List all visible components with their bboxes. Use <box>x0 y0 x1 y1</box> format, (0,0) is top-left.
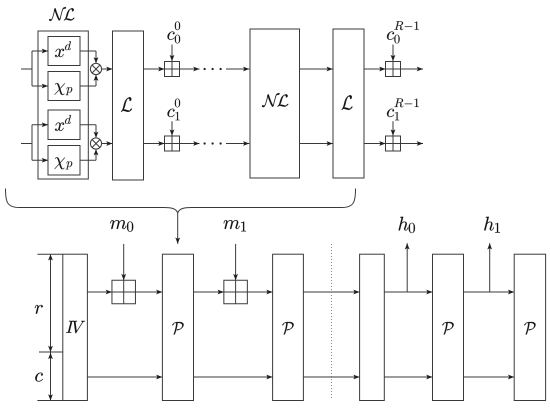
ellipsis dots <box>203 68 205 70</box>
box P permutation 3 <box>433 254 464 400</box>
label script-NL title <box>49 7 74 21</box>
tick bottom of IV <box>37 400 62 402</box>
box P permutation 4 <box>514 254 545 400</box>
box x^d (bottom pair) <box>48 110 80 140</box>
wire IV to m0 square <box>87 291 112 293</box>
arrow c_0^R-1 into square <box>392 45 394 62</box>
arrowhead into xor2 bottom <box>94 149 99 155</box>
box L (linear layer) first <box>113 31 144 180</box>
wire x^d out to xor1 <box>80 50 96 52</box>
xor-square c_1^0 <box>165 136 180 151</box>
ellipsis dots <box>203 142 205 144</box>
wire m0 square to P1 <box>135 291 162 293</box>
box chi_p (bottom pair) <box>48 146 80 176</box>
box IV initial value <box>63 254 88 400</box>
input wire stub <box>21 68 32 70</box>
xor-square m_0 <box>112 280 136 304</box>
wire P1 to P2 (c) <box>194 376 273 378</box>
xor-square m_1 <box>224 280 248 304</box>
outer NL container box <box>38 31 88 179</box>
tick r/c boundary <box>39 351 63 353</box>
label c_0^R-1 <box>387 32 394 40</box>
wire m1 square to P2 <box>247 291 272 293</box>
label h_1 <box>484 217 494 231</box>
underbrace spanning top diagram <box>6 189 356 213</box>
arrow square to dots <box>180 143 200 145</box>
arrowhead into xor1 bottom <box>94 75 99 81</box>
arrow m_0 down <box>123 244 125 280</box>
arrow c_0^0 into square <box>171 45 173 62</box>
arrow c_1^R-1 into square <box>392 121 394 135</box>
output arrow row2 <box>401 143 424 145</box>
wire P3 to P4 (r) <box>464 291 515 293</box>
input wire stub <box>21 143 32 145</box>
xor-square c_0^0 <box>165 62 180 77</box>
wire P3 to P4 (c) <box>464 376 515 378</box>
arrow square to dots <box>180 68 200 70</box>
wire IV to P1 (c) <box>87 376 162 378</box>
wire L to xor-square c0 <box>144 68 165 70</box>
input branch vertical <box>31 125 33 161</box>
wire x^d out to xor2 <box>80 124 96 126</box>
output arrow row1 <box>401 68 424 70</box>
arrow into x^d box <box>32 124 48 126</box>
arrow brace to first P box <box>177 213 179 244</box>
dotted separator line <box>331 244 333 398</box>
box chi_p (top pair) <box>48 72 80 101</box>
wire L2 to xor-square c0R <box>364 68 386 70</box>
arrow dots to NL box <box>226 68 249 70</box>
arrow h_0 up <box>406 243 408 292</box>
wire P2 to blank box (r) <box>303 291 359 293</box>
label r <box>35 305 43 314</box>
wire blank box to P3 (c) <box>384 376 432 378</box>
arrow m_1 down <box>235 244 237 280</box>
box x^d (top pair) <box>48 37 80 66</box>
label c <box>35 373 43 382</box>
arrow h_1 up <box>489 243 491 292</box>
box P permutation 2 <box>273 254 304 400</box>
box P permutation 1 <box>162 254 193 400</box>
arrow xor2 to L box <box>102 143 113 145</box>
arrowhead into xor1 top <box>94 57 99 63</box>
double arrow c span <box>50 353 52 401</box>
tick top of IV <box>37 253 62 255</box>
input branch vertical <box>31 51 33 86</box>
xor gate otimes 1 <box>90 63 101 74</box>
arrowhead into xor2 top <box>94 132 99 138</box>
arrow NL to L2 <box>300 143 333 145</box>
arrow dots to NL box <box>226 143 249 145</box>
wire P2 to blank box (c) <box>303 376 359 378</box>
wire chi_p out to xor2 <box>80 159 96 161</box>
arrow xor1 to L box <box>102 68 113 70</box>
wire L to xor-square c1 <box>144 143 165 145</box>
arrow c_1^0 into square <box>171 121 173 135</box>
arrow into chi_p box <box>32 159 48 161</box>
wire blank box to P3 (r) <box>384 291 432 293</box>
arrow NL to L2 <box>300 68 333 70</box>
xor-square c_1^R-1 <box>386 136 401 151</box>
label c_0^0 <box>168 32 175 40</box>
label c_1^R-1 <box>387 109 394 117</box>
label h_0 <box>399 217 409 231</box>
wire L2 to xor-square c1R <box>364 143 386 145</box>
xor-square c_0^R-1 <box>386 62 401 77</box>
arrow into x^d box <box>32 50 48 52</box>
label c_1^0 <box>168 109 175 117</box>
wire P1 to m1 square <box>194 291 224 293</box>
box NL (nonlinear layer) middle <box>250 29 300 178</box>
wire chi_p out to xor1 <box>80 85 96 87</box>
label m_1 <box>224 220 240 229</box>
blank state box <box>360 254 385 400</box>
box L (linear layer) second <box>333 29 364 178</box>
double arrow r span <box>50 255 52 352</box>
xor gate otimes 2 <box>90 138 101 149</box>
arrow into chi_p box <box>32 85 48 87</box>
label m_0 <box>110 220 126 229</box>
